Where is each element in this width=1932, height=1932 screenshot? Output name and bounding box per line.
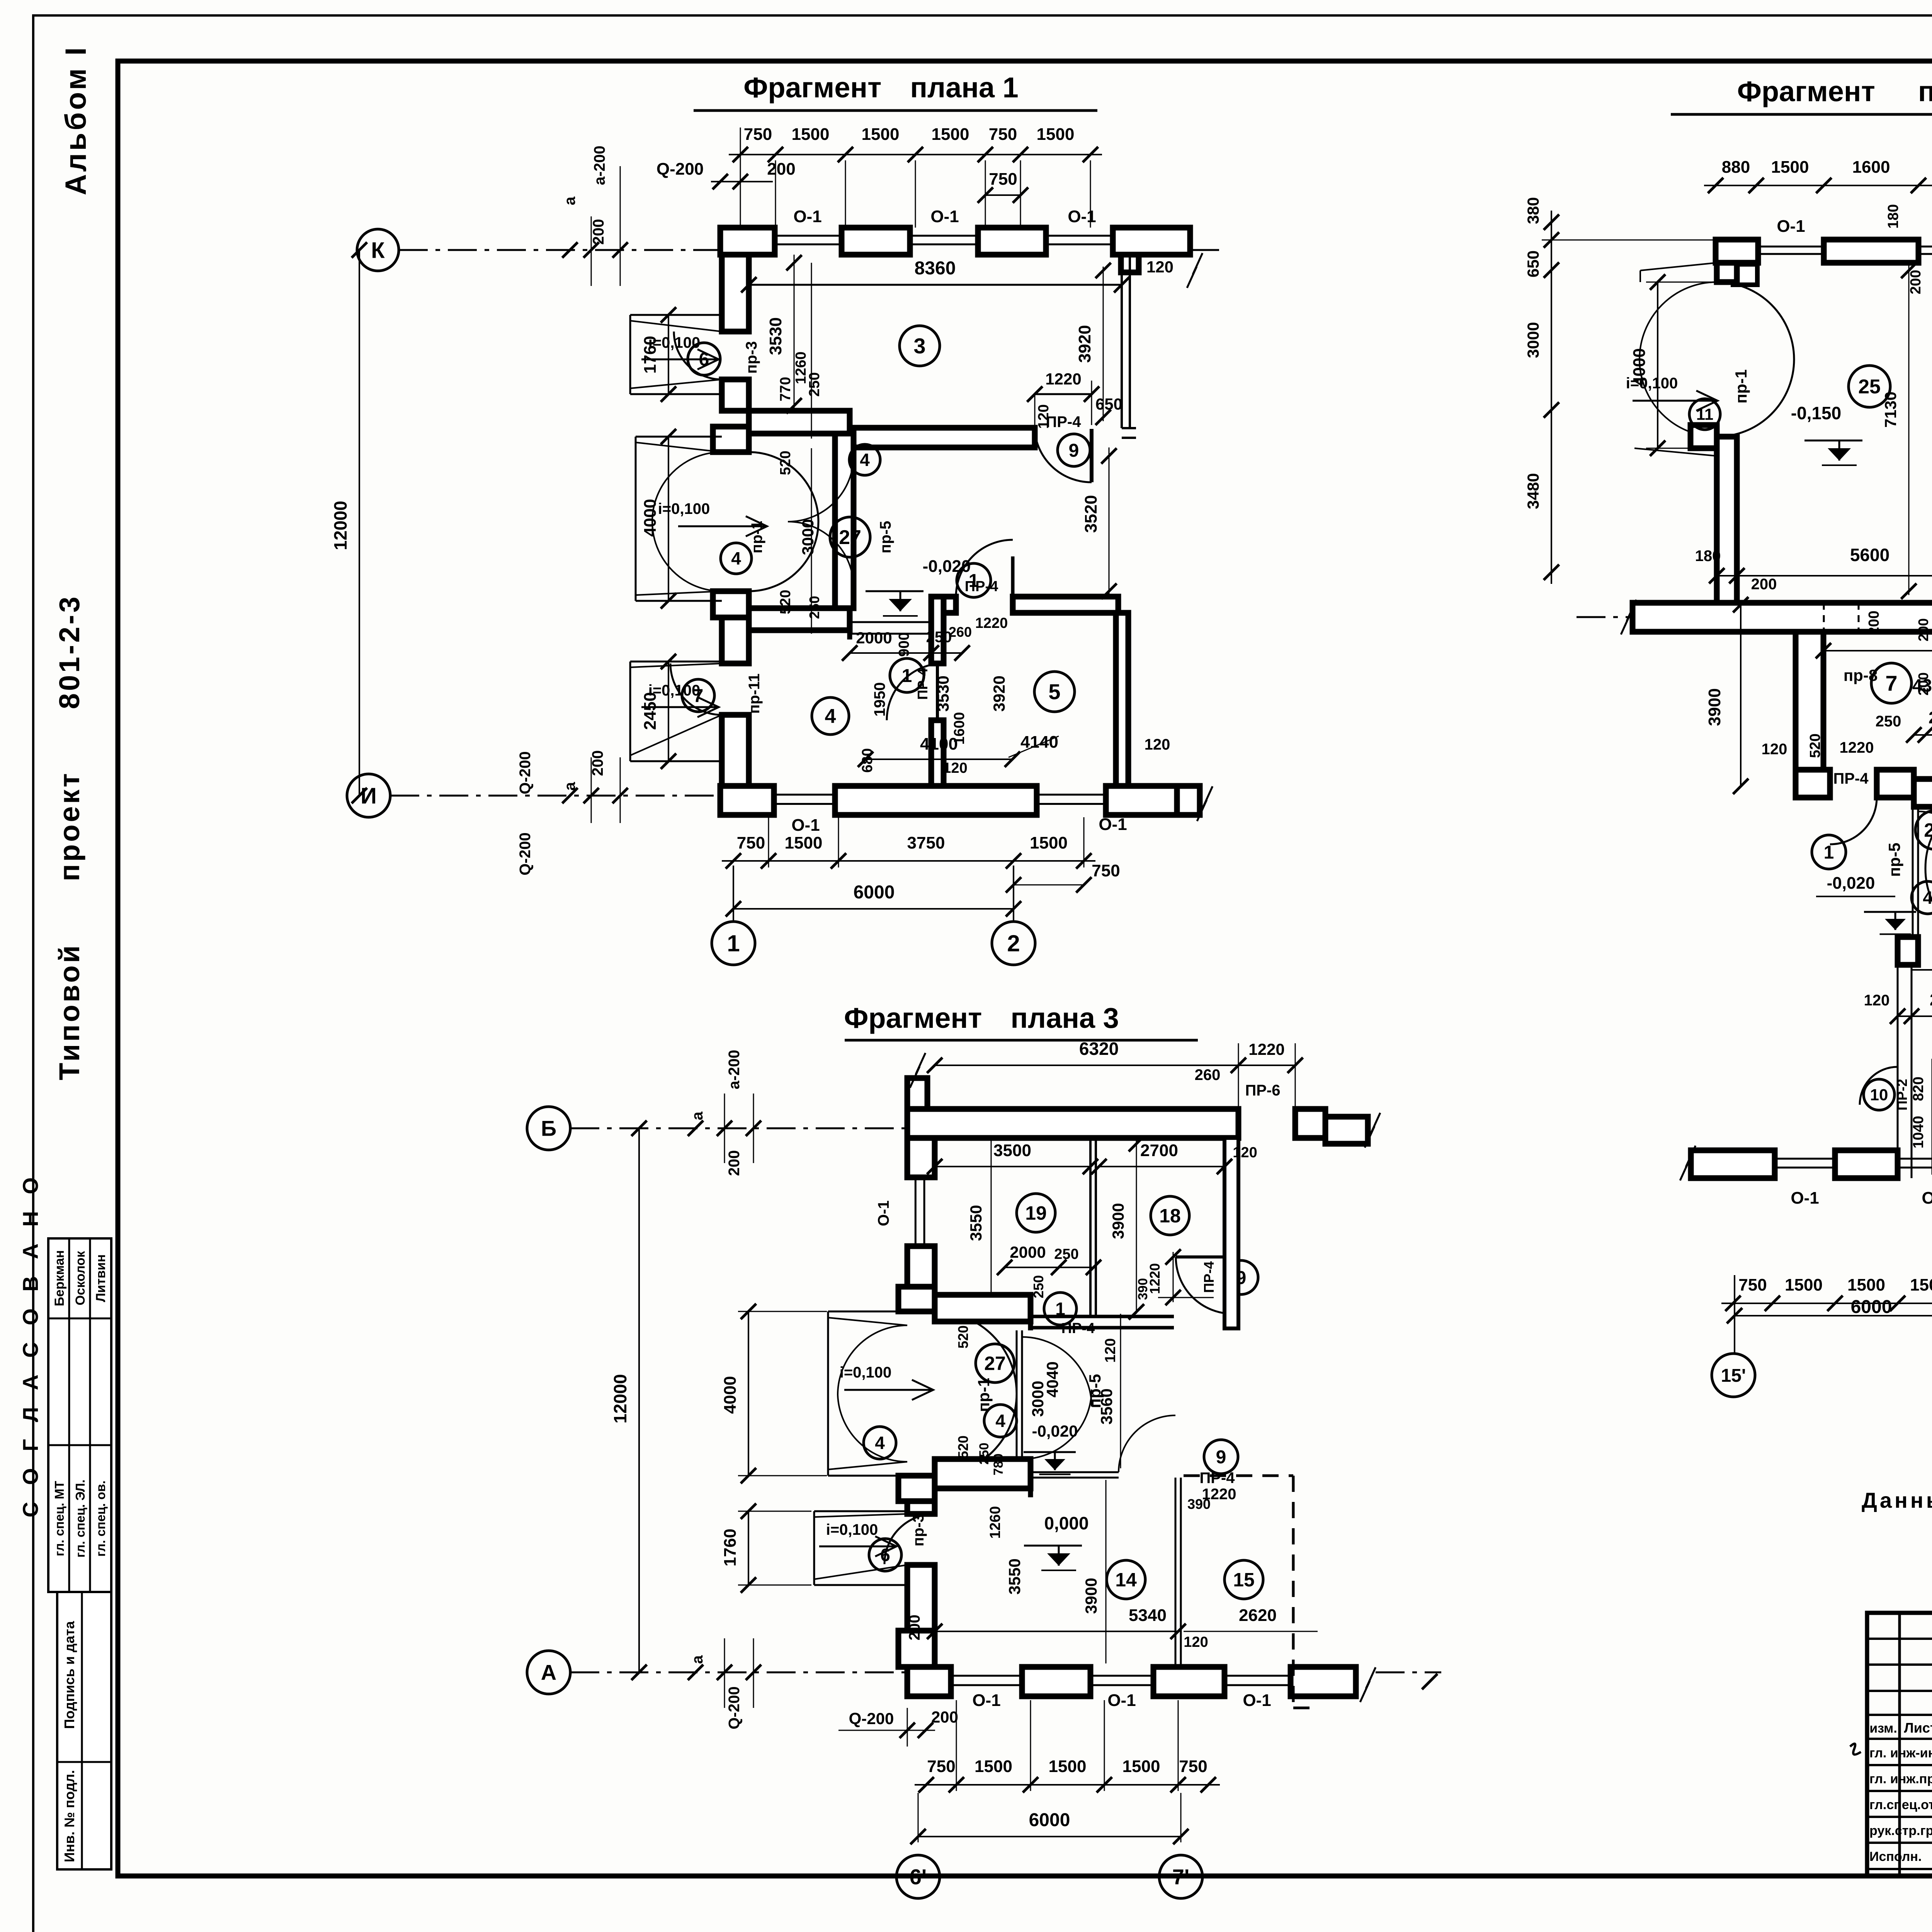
svg-text:15: 15	[1233, 1569, 1255, 1591]
plan1 door pr-4 room5 top arc	[1011, 556, 1015, 613]
svg-text:Фрагмент плана 1: Фрагмент плана 1	[743, 71, 1019, 104]
plan3 bottom window b	[1090, 1675, 1153, 1677]
svg-text:27: 27	[839, 526, 861, 549]
svg-text:пр-3: пр-3	[910, 1514, 927, 1546]
svg-text:27: 27	[984, 1353, 1006, 1374]
plan2 dim chain top	[1704, 185, 1932, 186]
plan1 dim 1220-650 door	[1035, 393, 1092, 395]
svg-text:1500: 1500	[1847, 1276, 1885, 1294]
plan2 corridor lens arcs	[1925, 791, 1932, 868]
svg-text:1600: 1600	[1852, 158, 1890, 177]
plan1 dim 4000 porch27	[668, 437, 669, 601]
plan1 room3 right partition	[1121, 255, 1123, 428]
plan2 top wall corner L	[1716, 240, 1758, 263]
svg-text:3550: 3550	[1005, 1558, 1024, 1594]
svg-text:120: 120	[1036, 404, 1052, 429]
plan3 top wall stub up	[907, 1078, 927, 1109]
plan1 bottom wall corner pier	[720, 786, 774, 815]
svg-text:2000: 2000	[1929, 708, 1932, 727]
plan1 dim 8360	[749, 284, 1122, 286]
svg-text:пр-5: пр-5	[1885, 843, 1903, 877]
svg-text:200: 200	[589, 750, 606, 776]
svg-text:19: 19	[1025, 1202, 1047, 1224]
plan3 circle 15	[1225, 1560, 1263, 1599]
svg-text:3920: 3920	[1075, 325, 1094, 363]
svg-text:ПР-4: ПР-4	[915, 668, 930, 700]
plan1 bottom wall break	[1177, 786, 1200, 815]
svg-text:1220: 1220	[1045, 370, 1081, 388]
svg-text:380: 380	[1524, 197, 1542, 224]
svg-text:1040: 1040	[1910, 1116, 1927, 1149]
svg-text:3900: 3900	[1109, 1203, 1127, 1239]
plan3 top wall offset piece	[1325, 1117, 1368, 1144]
svg-text:Q-200: Q-200	[517, 832, 534, 875]
svg-text:120: 120	[1864, 992, 1890, 1009]
plan1 axis 2 circle	[992, 922, 1035, 965]
svg-text:3530: 3530	[766, 317, 785, 355]
svg-text:Альбом I: Альбом I	[60, 45, 92, 196]
svg-text:820: 820	[1910, 1077, 1927, 1101]
svg-text:Подпись и дата: Подпись и дата	[61, 1621, 77, 1729]
svg-text:7130: 7130	[1881, 391, 1900, 427]
svg-text:2130: 2130	[1930, 990, 1932, 1009]
svg-text:25: 25	[1858, 376, 1881, 398]
svg-text:880: 880	[1722, 158, 1750, 177]
plan1 room4 top wall	[749, 608, 850, 630]
plan2 dim chain bottom	[1721, 1303, 1932, 1304]
svg-text:К: К	[371, 238, 385, 263]
plan1 dim 6000	[733, 908, 1014, 910]
svg-text:1500: 1500	[792, 125, 830, 144]
svg-text:3920: 3920	[990, 675, 1008, 711]
title block left table rows	[1867, 1638, 1932, 1640]
plan1 room4 top thin wall	[850, 621, 931, 623]
plan3 axis A right piece	[1376, 1672, 1441, 1673]
svg-text:520: 520	[777, 451, 794, 475]
svg-text:120: 120	[1146, 258, 1173, 276]
plan1 top wall window O-1 b	[910, 235, 978, 237]
plan1 circle 1 a	[957, 563, 991, 597]
svg-text:О-1: О-1	[875, 1201, 892, 1226]
svg-text:15': 15'	[1721, 1366, 1746, 1386]
plan3 axis B	[527, 1107, 570, 1150]
svg-text:250: 250	[977, 1443, 992, 1465]
plan2 door pr-8 dashes	[1823, 603, 1825, 632]
plan1 room5 right wall	[1116, 613, 1128, 786]
svg-text:3900: 3900	[1082, 1578, 1100, 1614]
plan1 dim ext lines top	[775, 160, 776, 228]
svg-text:6: 6	[880, 1545, 890, 1565]
plan1 porch 6	[629, 315, 631, 394]
svg-text:200: 200	[1915, 672, 1931, 696]
plan2 left pier mid	[1690, 425, 1717, 448]
plan1 circle 5	[1034, 672, 1075, 712]
svg-text:пр-1: пр-1	[975, 1378, 993, 1412]
plan3 room19 dims	[935, 1166, 1090, 1167]
svg-text:а-200: а-200	[591, 146, 608, 185]
svg-text:520: 520	[955, 1435, 971, 1459]
svg-text:i=0,100: i=0,100	[658, 500, 710, 517]
plan1 corridor left pier low	[713, 591, 749, 617]
svg-text:250: 250	[1876, 713, 1901, 730]
svg-text:120: 120	[1145, 736, 1170, 753]
svg-text:4040: 4040	[1043, 1361, 1061, 1397]
svg-text:120: 120	[1184, 1634, 1208, 1650]
svg-text:Инв. № подл.: Инв. № подл.	[61, 1770, 77, 1862]
plan2 dim 6000	[1735, 1315, 1932, 1316]
plan1 axis K	[357, 229, 399, 271]
svg-text:1: 1	[1055, 1299, 1065, 1319]
svg-text:2620: 2620	[1239, 1606, 1277, 1625]
svg-text:а: а	[561, 196, 578, 205]
plan3 left window O-1	[915, 1177, 917, 1246]
plan2 room16 left wall	[1897, 965, 1899, 1178]
svg-text:i=0,100: i=0,100	[840, 1364, 892, 1381]
plan1 pr5 door arcs	[788, 456, 854, 522]
svg-text:390: 390	[1187, 1496, 1211, 1512]
plan1 left wall mid2	[722, 617, 749, 663]
plan2 circle 11 l	[1689, 399, 1720, 430]
svg-text:О-1: О-1	[1107, 1691, 1136, 1710]
svg-text:гл. инж-ин.: гл. инж-ин.	[1869, 1746, 1932, 1760]
svg-text:пр-3: пр-3	[743, 341, 760, 374]
svg-text:1220: 1220	[1248, 1040, 1284, 1058]
plan1 dim 750 sub	[985, 194, 1020, 196]
svg-text:750: 750	[989, 170, 1017, 189]
svg-text:1500: 1500	[1910, 1276, 1932, 1294]
svg-text:390: 390	[1136, 1278, 1150, 1300]
svg-text:Беркман: Беркман	[52, 1250, 67, 1306]
plan2 room25 bottom wall	[1633, 603, 1932, 632]
plan1 bottom wall window O-1 a	[774, 794, 835, 796]
svg-text:7': 7'	[1172, 1865, 1189, 1889]
svg-text:1760: 1760	[721, 1529, 740, 1566]
plan3 partition 19-18	[1089, 1138, 1092, 1316]
svg-text:27: 27	[1924, 820, 1932, 841]
svg-text:770: 770	[777, 377, 794, 401]
plan2 top wall mid pier	[1824, 240, 1918, 263]
svg-text:120: 120	[1102, 1338, 1119, 1362]
plan1 room45 divider wall	[931, 597, 944, 663]
plan1 door pr-1 lens arcs	[749, 452, 818, 522]
svg-text:1500: 1500	[975, 1757, 1012, 1776]
plan3 dim 4000	[748, 1311, 749, 1476]
svg-text:гл. спец. ов.: гл. спец. ов.	[94, 1480, 108, 1556]
svg-text:6000: 6000	[1029, 1810, 1070, 1830]
plan2 circle 25	[1849, 366, 1890, 407]
svg-text:Q-200: Q-200	[726, 1686, 743, 1729]
svg-text:ПР-6: ПР-6	[1245, 1082, 1281, 1099]
plan3 circle 4 m	[984, 1405, 1017, 1437]
svg-text:1500: 1500	[1771, 158, 1809, 177]
svg-text:520: 520	[1807, 733, 1823, 758]
plan1 dim 3920 room3	[1103, 267, 1104, 421]
svg-text:2: 2	[1007, 930, 1020, 956]
plan1 top wall pier c	[978, 228, 1046, 255]
svg-text:-0,020: -0,020	[1032, 1422, 1078, 1440]
svg-text:10: 10	[1870, 1086, 1888, 1104]
svg-text:О-1: О-1	[793, 207, 821, 226]
svg-text:5340: 5340	[1129, 1606, 1167, 1625]
plan1 left wall upper	[722, 255, 749, 332]
plan2 top wall window a	[1758, 246, 1824, 248]
svg-text:С О Г Л А С О В А Н О: С О Г Л А С О В А Н О	[18, 1172, 43, 1517]
svg-text:250: 250	[806, 372, 823, 396]
plan3 bottom window c	[1225, 1675, 1291, 1677]
svg-text:А: А	[541, 1660, 556, 1685]
plan1 corridor left pier	[713, 427, 749, 452]
plan2 circle 1 room7	[1812, 835, 1846, 869]
plan1 door pr-4 room3 arc	[1035, 432, 1092, 482]
svg-text:7: 7	[1885, 671, 1897, 696]
svg-text:200: 200	[1751, 576, 1777, 593]
sidebar stamp table	[48, 1238, 111, 1592]
svg-text:9: 9	[1069, 440, 1079, 461]
plan3 door pr-4 room18	[1176, 1255, 1233, 1259]
svg-text:О-1: О-1	[1922, 1189, 1932, 1207]
svg-text:650: 650	[1095, 395, 1122, 413]
svg-text:200: 200	[1908, 270, 1924, 294]
svg-text:ПР-4: ПР-4	[1201, 1261, 1217, 1293]
svg-text:1: 1	[1824, 842, 1834, 863]
plan2 room16 top thin	[1912, 969, 1932, 971]
svg-text:3520: 3520	[1082, 495, 1100, 533]
plan2 left wall up	[1717, 263, 1737, 282]
plan1 axis 1 circle	[712, 922, 755, 965]
svg-text:пр-1: пр-1	[1732, 369, 1750, 403]
plan3 circle 27	[976, 1344, 1014, 1383]
svg-text:О-1: О-1	[1099, 815, 1127, 834]
svg-text:250: 250	[806, 596, 822, 619]
plan1 top wall window O-1 a	[775, 235, 842, 237]
svg-text:4: 4	[1923, 888, 1932, 908]
plan2 bottom window a	[1775, 1158, 1835, 1160]
plan2 door pr-4 room7 arc	[1830, 798, 1877, 844]
svg-text:1500: 1500	[785, 833, 823, 852]
plan3 dim chain bottom	[915, 1784, 1220, 1786]
svg-text:6': 6'	[910, 1865, 927, 1889]
svg-text:3: 3	[913, 334, 925, 358]
svg-text:200: 200	[1866, 611, 1882, 635]
plan3 axis 6 circle	[896, 1855, 940, 1898]
svg-text:9: 9	[1216, 1447, 1226, 1468]
svg-text:1950: 1950	[871, 682, 888, 717]
svg-text:3000: 3000	[799, 519, 817, 555]
svg-text:120: 120	[943, 760, 967, 776]
plan1 circle 3	[900, 326, 940, 366]
plan2 circle 27	[1915, 811, 1932, 849]
plan2 room7 bottom wall	[1796, 770, 1830, 798]
plan1 top wall corner pier	[720, 228, 775, 255]
svg-text:5: 5	[1048, 680, 1060, 704]
svg-text:-0,150: -0,150	[1791, 403, 1841, 423]
svg-text:750: 750	[1092, 861, 1120, 880]
svg-text:750: 750	[1738, 1276, 1767, 1294]
svg-text:6320: 6320	[1079, 1039, 1119, 1059]
svg-text:250: 250	[1031, 1275, 1046, 1298]
svg-text:Литвин: Литвин	[94, 1254, 108, 1302]
svg-text:18: 18	[1159, 1205, 1181, 1227]
plan1 circle 4 up	[849, 444, 880, 475]
plan3 bottom pier b	[1022, 1667, 1090, 1696]
svg-text:рук.стр.гр.: рук.стр.гр.	[1869, 1823, 1932, 1838]
svg-text:а: а	[689, 1655, 706, 1664]
plan3 porch 6	[813, 1511, 815, 1585]
plan1 dim 12000	[359, 250, 360, 796]
svg-text:2000: 2000	[1010, 1243, 1046, 1261]
svg-text:200: 200	[1915, 618, 1931, 641]
svg-text:4: 4	[875, 1433, 885, 1453]
svg-text:3000: 3000	[1524, 322, 1542, 358]
plan1 right wall stub	[1121, 255, 1139, 272]
svg-text:2450: 2450	[641, 692, 660, 730]
plan1 circle 1 b	[890, 658, 924, 692]
svg-text:4: 4	[860, 450, 870, 470]
plan1 dim 3530 room3	[794, 255, 795, 411]
svg-text:200: 200	[726, 1150, 743, 1176]
svg-text:О-1: О-1	[930, 207, 959, 226]
svg-text:650: 650	[1524, 250, 1542, 277]
plan3 circle 6	[869, 1539, 901, 1571]
svg-text:Типовой проект 801-2-3: Типовой проект 801-2-3	[53, 594, 85, 1080]
svg-text:изм.: изм.	[1869, 1721, 1897, 1736]
svg-text:О-1: О-1	[1777, 217, 1805, 236]
svg-text:1500: 1500	[932, 125, 969, 144]
plan3 door pr-3 arc	[884, 1514, 935, 1564]
svg-text:гл. спец. МТ: гл. спец. МТ	[52, 1481, 66, 1556]
plan1 top wall pier b	[842, 228, 910, 255]
svg-text:0,000: 0,000	[1044, 1513, 1088, 1533]
plan3 circle 9 up	[1224, 1260, 1258, 1294]
plan3 dim 1760	[748, 1511, 749, 1585]
plan2 pr5 wall	[1912, 807, 1914, 946]
plan1 left wall stub2	[722, 379, 749, 411]
svg-text:О-1: О-1	[1068, 207, 1096, 226]
plan1 dim ext bottom	[768, 817, 769, 867]
plan1 porch 27	[635, 437, 637, 601]
plan3 bottom window a	[951, 1675, 1022, 1677]
svg-text:ПР-4: ПР-4	[1061, 1320, 1095, 1337]
plan2 door pr-2 arc	[1860, 1067, 1898, 1105]
plan3 circle 4 l	[864, 1427, 896, 1459]
plan1 dim chain top	[729, 154, 1102, 155]
svg-text:3530: 3530	[934, 675, 952, 711]
svg-text:1760: 1760	[641, 336, 660, 374]
svg-text:пр-11: пр-11	[746, 673, 763, 714]
plan3 bottom corner pier	[907, 1667, 951, 1696]
plan1 top wall right pier	[1113, 228, 1190, 255]
plan3 left pier mid	[898, 1476, 935, 1501]
plan1 bottom wall right pier	[1106, 786, 1177, 815]
svg-text:1500: 1500	[1785, 1276, 1823, 1294]
svg-text:Данный лист см. совместно с ли: Данный лист см. совместно с листом АР-3	[1862, 1488, 1932, 1512]
svg-text:1500: 1500	[862, 125, 900, 144]
svg-text:1500: 1500	[1037, 125, 1075, 144]
svg-text:1: 1	[902, 666, 912, 686]
svg-text:3480: 3480	[1524, 473, 1542, 509]
plan3 dim 12000	[638, 1128, 640, 1672]
plan3 room14 top thin	[1031, 1471, 1119, 1473]
plan2 door pr-1 left lens	[1717, 282, 1794, 359]
svg-text:4: 4	[731, 548, 741, 568]
svg-text:1600: 1600	[951, 712, 968, 745]
plan1 pr5 wall	[835, 434, 854, 608]
plan2 pr5 small arc	[1918, 811, 1932, 873]
plan1 door pr-4 room5 left arc	[887, 663, 944, 720]
svg-text:200: 200	[931, 1708, 958, 1726]
svg-text:О-1: О-1	[972, 1691, 1000, 1710]
plan3 room18 right wall	[1225, 1138, 1238, 1328]
plan1 room3 bottom wall step	[847, 411, 852, 442]
plan2 wall stub left	[1898, 937, 1918, 965]
svg-text:-0,020: -0,020	[1827, 874, 1875, 893]
svg-text:8360: 8360	[915, 258, 956, 279]
svg-text:120: 120	[1233, 1145, 1257, 1161]
svg-text:гл. инж.пр.: гл. инж.пр.	[1869, 1772, 1932, 1786]
plan1 dim 2450 porch7	[668, 662, 669, 761]
plan1 door pr-4 room3 leaf	[1090, 429, 1094, 482]
title block outer	[1867, 1613, 1932, 1876]
plan3 left wall seg1	[907, 1138, 935, 1177]
svg-text:Q-200: Q-200	[656, 160, 704, 179]
plan3 top dims	[935, 1065, 1238, 1066]
svg-text:Фрагмент плана 3: Фрагмент плана 3	[844, 1002, 1119, 1034]
svg-text:1500: 1500	[1049, 1757, 1087, 1776]
plan3 door pr-4 mid arc	[1119, 1415, 1175, 1472]
plan2 circle 4 a	[1912, 881, 1932, 914]
svg-text:260: 260	[1195, 1066, 1221, 1083]
svg-text:14: 14	[1115, 1569, 1137, 1591]
sidebar lower boxes	[57, 1592, 111, 1869]
plan2 bottom wall p1	[1691, 1150, 1775, 1178]
svg-text:1500: 1500	[1122, 1757, 1160, 1776]
svg-text:1220: 1220	[1840, 739, 1874, 756]
plan1 circle 7	[682, 679, 714, 712]
svg-text:1: 1	[727, 930, 740, 956]
svg-text:7: 7	[693, 686, 704, 706]
svg-text:1260: 1260	[987, 1506, 1003, 1539]
plan1 room3 bottom wall	[749, 411, 850, 434]
svg-text:2700: 2700	[1140, 1141, 1178, 1160]
svg-text:О-1: О-1	[791, 816, 820, 835]
plan1 room5 top wall	[944, 597, 956, 613]
plan1 circle 4 room4	[812, 697, 849, 735]
svg-text:Фрагмент плана 2: Фрагмент плана 2	[1737, 75, 1932, 107]
svg-text:12000: 12000	[610, 1374, 630, 1423]
plan1 circle 27	[830, 517, 870, 557]
svg-text:4000: 4000	[721, 1376, 740, 1414]
svg-text:180: 180	[1885, 204, 1901, 228]
svg-text:200: 200	[590, 219, 607, 245]
svg-text:11: 11	[1696, 405, 1713, 423]
svg-text:200: 200	[767, 160, 795, 179]
svg-text:680: 680	[859, 748, 876, 772]
svg-text:4: 4	[995, 1411, 1005, 1431]
svg-text:120: 120	[1762, 741, 1787, 758]
plan3 top wall pier2	[1295, 1109, 1325, 1138]
svg-text:6: 6	[699, 349, 709, 370]
plan3 dim 6000	[918, 1836, 1181, 1837]
plan1 dim 1760 porch6	[668, 315, 669, 394]
plan3 circle 1	[1044, 1293, 1077, 1325]
plan3 left wall seg4	[907, 1565, 935, 1667]
plan2 circle 10	[1864, 1079, 1895, 1110]
plan1 axis K cont	[1190, 249, 1221, 251]
plan1 left wall lower	[722, 715, 749, 786]
plan1 dim 3520	[1109, 447, 1110, 597]
svg-text:а-200: а-200	[726, 1050, 743, 1089]
svg-text:2000: 2000	[856, 629, 892, 647]
